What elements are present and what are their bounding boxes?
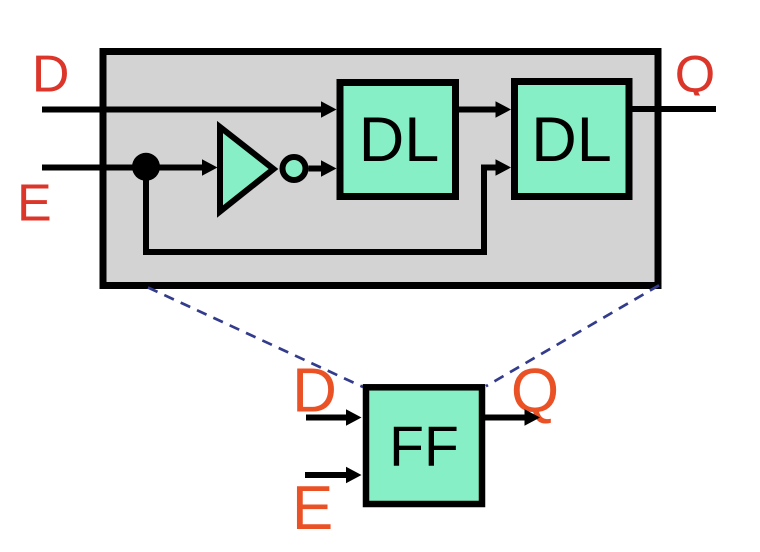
wire bubble to DL1 [309, 166, 323, 172]
enclosure box (flip-flop internals) [103, 52, 658, 286]
wire DL1 to DL2 [459, 107, 497, 113]
svg-text:D: D [32, 46, 70, 104]
arrow on FF Q output [525, 409, 541, 426]
latch DL2 box [515, 82, 630, 197]
wire Q output [632, 106, 716, 112]
junction node on E wire [132, 153, 160, 181]
arrow into FF E [346, 467, 362, 484]
latch DL1 box [340, 83, 456, 197]
wire FF D input [306, 415, 347, 421]
arrow into FF D [346, 409, 362, 426]
arrow into DL2 enable input [496, 159, 512, 176]
arrow into DL1 D input [321, 101, 337, 118]
svg-text:DL: DL [359, 105, 440, 175]
arrow into DL2 D input [496, 101, 512, 118]
arrow into inverter [202, 159, 218, 176]
svg-text:Q: Q [675, 46, 715, 104]
trim of Q tail to match reference glyph [690, 96, 716, 104]
wire FF Q output [485, 415, 526, 421]
svg-text:DL: DL [531, 105, 612, 175]
wire FF E input [305, 472, 347, 478]
wire D input [42, 107, 322, 113]
inverter U1 triangle [220, 127, 274, 212]
dashed zoom line left [148, 288, 363, 388]
flip-flop FF box [366, 387, 482, 504]
dashed zoom line right [486, 285, 659, 386]
wire E input [42, 165, 146, 171]
svg-text:E: E [17, 175, 52, 233]
svg-text:FF: FF [389, 415, 459, 479]
svg-text:E: E [292, 474, 333, 543]
arrow into DL1 enable input [321, 160, 337, 177]
wire junction to inverter [146, 165, 204, 171]
feedback wire from junction to DL2 enable [146, 167, 497, 252]
inverter bubble [283, 157, 306, 180]
